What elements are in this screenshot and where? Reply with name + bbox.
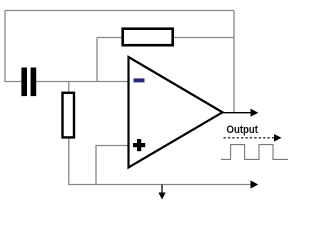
ground rail arrowhead [251, 180, 259, 188]
resistor R1 [123, 29, 173, 46]
wire non-inverting input net [96, 146, 129, 185]
resistor R2 [63, 93, 75, 138]
wire R2 top stub [68, 82, 70, 93]
op-amp U1 [129, 57, 223, 168]
wire feedback vertical [96, 38, 98, 82]
svg-text:Output: Output [227, 124, 259, 136]
ground arrow [158, 185, 165, 200]
wire top rail [5, 10, 234, 12]
wire R1 right lead [173, 37, 234, 39]
wire R2 bottom to ground rail [69, 138, 254, 185]
wire left rail [5, 11, 21, 82]
square wave symbol [221, 145, 288, 160]
wire inverting input net [36, 81, 129, 83]
dashed output arrow [224, 134, 282, 142]
wire R1 left lead [97, 37, 122, 39]
op-amp inverting label [134, 78, 145, 82]
wire right rail [233, 11, 235, 113]
capacitor C1 [21, 68, 36, 97]
op-amp non-inverting label [133, 139, 145, 151]
output wire arrow [223, 109, 258, 117]
